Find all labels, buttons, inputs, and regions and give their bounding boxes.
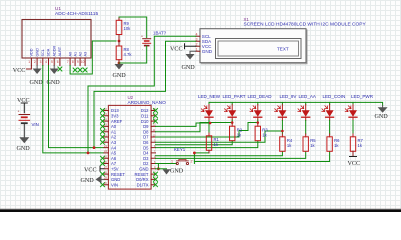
- svg-text:D1/TX: D1/TX: [137, 182, 149, 187]
- no-connect U2 left VIN: [101, 183, 105, 187]
- node D7 join LED3: [257, 121, 260, 124]
- battery 1BAT?: [141, 31, 167, 52]
- svg-text:3V3: 3V3: [111, 114, 119, 119]
- LED D5: [298, 102, 310, 136]
- resistor R2: [230, 126, 243, 141]
- wire ADC SCL down to A5 rail: [43, 66, 104, 153]
- svg-text:ADC-4CH-ADS1115: ADC-4CH-ADS1115: [55, 11, 98, 17]
- node SDA join: [93, 146, 96, 149]
- no-connect U2 right D11: [154, 114, 158, 118]
- svg-text:A3: A3: [111, 140, 117, 145]
- svg-text:+5V: +5V: [111, 167, 119, 172]
- resistor R6: [327, 137, 340, 152]
- wire D6 to LED4 column: [156, 131, 283, 142]
- node D8 join LED2: [231, 121, 234, 124]
- LED labels: [198, 94, 374, 99]
- battery VIN (VCC to GND): [17, 98, 39, 152]
- LED D3: [250, 102, 262, 126]
- svg-text:10k: 10k: [124, 26, 132, 31]
- svg-text:ALRT: ALRT: [58, 46, 62, 56]
- wire R2 to pin: [156, 141, 233, 145]
- wire R3 to pin D5: [156, 141, 258, 148]
- svg-text:4: 4: [45, 60, 47, 64]
- wire R9 top to battery: [119, 17, 147, 38]
- svg-text:+: +: [141, 35, 143, 39]
- no-connect U2 left D13: [101, 109, 105, 113]
- no-connect ALRT: [58, 67, 62, 71]
- wire D9 to LED1 column: [156, 123, 211, 126]
- node R8 bottom: [118, 62, 121, 65]
- svg-text:GND: GND: [375, 114, 389, 120]
- node D6 join LED4: [281, 130, 284, 133]
- no-connect U2 left 3V3: [101, 114, 105, 118]
- svg-text:A3: A3: [83, 52, 87, 57]
- X1 pin numbers: [196, 33, 198, 52]
- svg-text:D10: D10: [141, 119, 149, 124]
- svg-text:LED_DEAD: LED_DEAD: [248, 94, 273, 99]
- no-connect U2 left RESET: [101, 172, 105, 176]
- svg-text:SCREEN LCD HD44780LCD WITH I2C: SCREEN LCD HD44780LCD WITH I2C MODULE CO…: [244, 22, 367, 28]
- svg-text:A0: A0: [111, 124, 117, 129]
- svg-text:LED_PWR: LED_PWR: [351, 94, 374, 99]
- svg-text:GND: GND: [17, 146, 31, 152]
- svg-text:D5: D5: [143, 145, 149, 150]
- svg-text:LED_NEW: LED_NEW: [198, 94, 221, 99]
- ground flag U2 GND left: [81, 175, 105, 184]
- svg-text:A7: A7: [111, 161, 117, 166]
- no-connect U2 right D0: [154, 177, 158, 181]
- svg-text:+: +: [18, 110, 20, 114]
- node KEY riser join: [193, 152, 196, 155]
- svg-text:U2: U2: [128, 95, 134, 100]
- svg-text:A2: A2: [78, 52, 82, 57]
- ground under R8: [113, 64, 127, 79]
- U2 right pin stubs: [151, 111, 155, 185]
- svg-text:AREF: AREF: [111, 119, 123, 124]
- pushbutton KEY1: [171, 147, 193, 165]
- svg-text:5: 5: [51, 60, 53, 64]
- no-connect U2 left A3: [101, 140, 105, 144]
- wire VDD to VCC flag: [27, 66, 32, 70]
- svg-text:VCC: VCC: [84, 168, 97, 174]
- svg-text:LED_9V: LED_9V: [280, 94, 298, 99]
- wire D2 to key left: [156, 163, 177, 165]
- no-connect A2: [78, 68, 82, 72]
- svg-text:10: 10: [81, 60, 85, 64]
- resistor R1: [206, 136, 219, 153]
- LED D6: [322, 102, 334, 136]
- no-connect U2 left A2: [101, 135, 105, 139]
- svg-text:2: 2: [34, 60, 36, 64]
- svg-text:GND: GND: [81, 178, 95, 184]
- resistor R7: [350, 137, 363, 157]
- svg-text:A5: A5: [111, 151, 117, 156]
- svg-text:D12: D12: [141, 108, 149, 113]
- svg-text:D6: D6: [143, 140, 149, 145]
- svg-text:KEY1: KEY1: [174, 147, 186, 152]
- svg-text:8: 8: [72, 60, 74, 64]
- resistor R8: [116, 41, 132, 63]
- ground GND pin2: [30, 66, 44, 87]
- LCD module X1: [200, 17, 366, 64]
- wire LED top rail to GND: [209, 102, 383, 105]
- svg-text:A1: A1: [73, 52, 77, 57]
- svg-text:D9: D9: [143, 124, 149, 129]
- svg-text:GND: GND: [182, 65, 196, 71]
- no-connect U2 left A6: [101, 156, 105, 160]
- svg-text:RESET: RESET: [111, 172, 125, 177]
- U2 left pin stubs: [104, 111, 108, 185]
- wire key left down to gnd row: [157, 164, 159, 169]
- ground LCD GND pin: [182, 51, 196, 71]
- U2 left pin numbers: [104, 107, 107, 185]
- svg-text:A6: A6: [111, 156, 117, 161]
- U2 right pin numbers: [153, 107, 156, 185]
- svg-text:2: 2: [191, 160, 193, 164]
- svg-text:D13: D13: [111, 108, 119, 113]
- svg-text:GND: GND: [139, 167, 148, 172]
- U1 pin names: [30, 45, 88, 56]
- svg-text:1: 1: [171, 160, 173, 164]
- svg-text:GND: GND: [111, 177, 120, 182]
- svg-text:D7: D7: [143, 135, 149, 140]
- wire D4 KEY R1 rail: [194, 152, 208, 154]
- svg-text:GND: GND: [30, 80, 44, 86]
- svg-text:GND: GND: [202, 49, 213, 54]
- taskbar bottom: [0, 209, 401, 212]
- wire R6 to pin: [194, 152, 329, 162]
- resistor R9: [116, 17, 131, 41]
- U2 left pin names: [111, 108, 125, 187]
- no-connect U2 left A7: [101, 162, 105, 166]
- svg-text:4.7k: 4.7k: [124, 52, 133, 57]
- X1 pin stubs: [196, 36, 200, 51]
- wire battery minus to R8 bottom: [119, 46, 147, 63]
- no-connect U2 right D1: [154, 183, 158, 187]
- svg-text:A0: A0: [68, 52, 72, 57]
- svg-text:-: -: [19, 127, 20, 131]
- svg-text:VDD: VDD: [30, 48, 34, 56]
- wire LCD SDA to A4: [94, 41, 196, 147]
- node key gnd join: [157, 167, 160, 170]
- svg-text:X1: X1: [244, 17, 250, 22]
- U1 pin stubs: [31, 58, 85, 66]
- svg-text:D2: D2: [143, 161, 149, 166]
- svg-text:TEXT: TEXT: [277, 46, 289, 51]
- U2 right pin names: [135, 108, 150, 187]
- wire KEY riser: [193, 153, 195, 164]
- svg-text:3: 3: [40, 60, 42, 64]
- wire R5 to pin D3: [156, 152, 306, 159]
- no-connect U2 right D10: [154, 119, 158, 123]
- U1 pin numbers: [28, 60, 84, 64]
- LED D4: [275, 102, 287, 136]
- wire R4 to pin: [156, 152, 283, 156]
- svg-text:VCC: VCC: [348, 161, 361, 167]
- VCC flag R7: [348, 157, 361, 168]
- svg-text:GND: GND: [170, 169, 184, 175]
- IC U1 ADC-4CH-ADS1115: [22, 6, 98, 58]
- svg-text:A4: A4: [111, 145, 117, 150]
- svg-text:D0/RX: D0/RX: [136, 177, 149, 182]
- node divider mid: [118, 40, 121, 43]
- svg-text:VIN: VIN: [32, 122, 39, 127]
- svg-text:9: 9: [77, 60, 79, 64]
- no-connect U2 left AREF: [101, 119, 105, 123]
- svg-text:1: 1: [28, 60, 30, 64]
- wire D7 to LED3 column: [156, 123, 258, 138]
- svg-text:VIN: VIN: [111, 182, 118, 187]
- X1 pin names: [202, 34, 213, 54]
- node SCL join: [87, 152, 90, 155]
- LED D7: [345, 102, 357, 136]
- svg-text:GND: GND: [113, 73, 127, 79]
- wire ADC A0 to divider: [70, 41, 116, 74]
- IC U2 ARDUINO_NANO: [108, 95, 166, 189]
- svg-text:D8: D8: [143, 129, 149, 134]
- ground LED rail: [375, 105, 389, 119]
- svg-text:U1: U1: [55, 6, 61, 11]
- no-connect A3: [83, 68, 87, 72]
- svg-text:LED_AA: LED_AA: [299, 94, 317, 99]
- svg-text:D11: D11: [141, 114, 149, 119]
- svg-text:-: -: [142, 47, 143, 51]
- VCC flag LCD: [170, 44, 196, 53]
- svg-text:1BAT?: 1BAT?: [153, 31, 167, 36]
- svg-text:A2: A2: [111, 135, 117, 140]
- ground KEY1: [163, 169, 184, 175]
- ground ADDR pin5: [47, 66, 61, 87]
- svg-text:D3: D3: [143, 156, 149, 161]
- wire LCD SCL to A5: [88, 36, 196, 153]
- svg-text:VCC: VCC: [170, 46, 183, 52]
- resistor R3: [255, 126, 268, 141]
- LED D2: [224, 102, 236, 126]
- svg-text:VCC: VCC: [13, 68, 26, 74]
- no-connect A1: [73, 68, 77, 72]
- svg-text:D4: D4: [143, 151, 149, 156]
- svg-text:GND: GND: [35, 48, 39, 57]
- resistor R5: [303, 137, 316, 152]
- svg-text:7: 7: [67, 60, 69, 64]
- VCC flag +5V: [84, 166, 104, 173]
- svg-text:LED_COIN: LED_COIN: [323, 94, 346, 99]
- LED D1: [201, 102, 213, 135]
- wire D8 to LED2 column: [156, 123, 232, 132]
- resistor R4: [280, 137, 293, 152]
- node D9 join LED1: [209, 122, 212, 125]
- svg-text:SCL: SCL: [41, 49, 45, 56]
- wire ADC SDA down to A4 rail: [49, 66, 105, 148]
- no-connect U2 left A0: [101, 124, 105, 128]
- no-connect U2 right RESET: [154, 172, 158, 176]
- no-connect U2 left A1: [101, 130, 105, 134]
- svg-text:RESET: RESET: [135, 172, 149, 177]
- svg-text:SDA: SDA: [47, 48, 51, 56]
- wire U2 GND row to ground: [156, 168, 167, 170]
- svg-text:LED_PART: LED_PART: [223, 94, 246, 99]
- svg-text:A1: A1: [111, 129, 117, 134]
- svg-text:ADDR: ADDR: [52, 45, 56, 56]
- svg-text:6: 6: [57, 60, 59, 64]
- no-connect U2 right D12: [154, 109, 158, 113]
